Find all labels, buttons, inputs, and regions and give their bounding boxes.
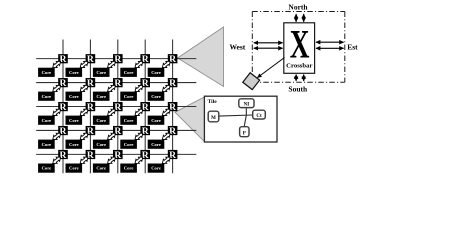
svg-text:Crossbar: Crossbar [286, 63, 312, 70]
router R (2,2) [86, 78, 96, 89]
core (5,3) [93, 164, 110, 173]
router internal diagram dashed boundary top [252, 11, 344, 13]
core (5,2) [66, 164, 83, 173]
core-router link arrow (4,2) [79, 131, 90, 141]
router R (5,2) [86, 150, 96, 161]
router R (1,3) [113, 54, 123, 65]
core-router link arrow (4,3) [106, 131, 117, 141]
router R (4,1) [58, 126, 68, 137]
local port diamond [243, 73, 260, 90]
crossbar box [284, 23, 315, 74]
core-router link arrow (3,1) [51, 107, 62, 117]
svg-text:M: M [211, 116, 216, 121]
mesh row 3 horizontal link wire [36, 106, 196, 108]
core-router link arrow (5,2) [79, 155, 90, 165]
core (2,4) [120, 92, 137, 101]
core (1,5) [148, 68, 165, 77]
core-router link arrow (3,3) [106, 107, 117, 117]
zoom callout triangle to crossbar diagram [178, 27, 224, 87]
east port arrow 1 [316, 41, 344, 43]
core (1,4) [120, 68, 137, 77]
core (4,1) [38, 140, 55, 149]
router R (5,5) [168, 150, 178, 161]
tile bus wire M to Ct [219, 115, 253, 116]
svg-text:South: South [288, 85, 308, 94]
mesh row 4 horizontal link wire [36, 129, 196, 131]
svg-text:Tile: Tile [208, 99, 218, 105]
core (3,4) [120, 116, 137, 125]
svg-text:P: P [243, 131, 246, 136]
mesh row 5 horizontal link wire [36, 153, 196, 155]
crossbar label [286, 63, 312, 70]
core (3,5) [148, 116, 165, 125]
svg-text:NI: NI [244, 102, 250, 107]
mesh row 1 horizontal link wire [36, 58, 196, 60]
router R (5,4) [140, 150, 150, 161]
mesh column 3 vertical link wire [117, 40, 119, 174]
core-router link arrow (2,3) [106, 83, 117, 93]
router R (4,2) [86, 126, 96, 137]
core (3,1) [38, 116, 55, 125]
crossbar X symbol [290, 23, 310, 67]
north port arrow 1 [295, 14, 297, 22]
tile component Ct [253, 110, 266, 119]
router R (3,4) [140, 102, 150, 113]
core-router link arrow (3,2) [79, 107, 90, 117]
router R (3,2) [86, 102, 96, 113]
core (5,5) [148, 164, 165, 173]
arrow from crossbar to local port diamond [257, 58, 284, 78]
core (2,5) [148, 92, 165, 101]
core (4,4) [120, 140, 137, 149]
wire NI to bus [245, 108, 247, 116]
core-router link arrow (1,5) [161, 59, 172, 69]
mesh column 5 vertical link wire [172, 40, 174, 174]
router R (2,1) [58, 78, 68, 89]
core-router link arrow (4,4) [133, 131, 144, 141]
north port arrow 2 [303, 14, 305, 22]
router R (4,5) [168, 126, 178, 137]
router R (1,2) [86, 54, 96, 65]
router R (3,5) [168, 102, 178, 113]
core-router link arrow (3,4) [133, 107, 144, 117]
svg-text:Est: Est [347, 42, 358, 51]
south port arrow 2 [303, 75, 305, 82]
router R (1,5) [168, 54, 178, 65]
dashed boundary left [251, 12, 253, 83]
dashed boundary right [344, 12, 346, 83]
core (1,1) [38, 68, 55, 77]
router R (2,5) [168, 78, 178, 89]
core (4,5) [148, 140, 165, 149]
south port arrow 1 [295, 75, 297, 82]
core-router link arrow (2,1) [51, 83, 62, 93]
tile component P [240, 127, 249, 137]
core (2,1) [38, 92, 55, 101]
core-router link arrow (4,5) [161, 131, 172, 141]
west port arrow 2 [254, 47, 283, 49]
tile component M [208, 111, 219, 122]
core-router link arrow (5,5) [161, 155, 172, 165]
router R (5,3) [113, 150, 123, 161]
mesh column 4 vertical link wire [144, 40, 146, 174]
router R (2,4) [140, 78, 150, 89]
mesh column 1 vertical link wire [62, 40, 64, 174]
core-router link arrow (1,4) [133, 59, 144, 69]
core (3,3) [93, 116, 110, 125]
tile detail box [204, 96, 277, 142]
core-router link arrow (1,1) [51, 59, 62, 69]
tile component NI [239, 99, 254, 108]
core-router link arrow (5,3) [106, 155, 117, 165]
tile label [208, 99, 218, 105]
core (1,3) [93, 68, 110, 77]
svg-text:Ct: Ct [256, 114, 262, 119]
core (3,2) [66, 116, 83, 125]
core-router link arrow (2,2) [79, 83, 90, 93]
wire bus to P [244, 115, 246, 126]
east port arrow 2 [316, 47, 344, 49]
router R (2,3) [113, 78, 123, 89]
router R (1,1) [58, 54, 68, 65]
router R (4,3) [113, 126, 123, 137]
core (1,2) [66, 68, 83, 77]
router R (5,1) [58, 150, 68, 161]
mesh column 2 vertical link wire [89, 40, 91, 174]
mesh row 2 horizontal link wire [36, 82, 196, 84]
core-router link arrow (5,4) [133, 155, 144, 165]
svg-text:North: North [288, 2, 308, 11]
router R (3,1) [58, 102, 68, 113]
core-router link arrow (2,5) [161, 83, 172, 93]
core-router link arrow (5,1) [51, 155, 62, 165]
core-router link arrow (3,5) [161, 107, 172, 117]
dashed boundary bottom [252, 81, 344, 83]
core-router link arrow (1,3) [106, 59, 117, 69]
router R (3,3) [113, 102, 123, 113]
core (2,3) [93, 92, 110, 101]
core-router link arrow (4,1) [51, 131, 62, 141]
svg-text:X: X [290, 23, 310, 67]
core (5,4) [120, 164, 137, 173]
router R (4,4) [140, 126, 150, 137]
zoom callout cone to tile detail [175, 97, 204, 142]
core (2,2) [66, 92, 83, 101]
core (4,2) [66, 140, 83, 149]
svg-text:West: West [229, 43, 245, 52]
core-router link arrow (1,2) [79, 59, 90, 69]
core (5,1) [38, 164, 55, 173]
core (4,3) [93, 140, 110, 149]
router R (1,4) [140, 54, 150, 65]
west port arrow 1 [254, 42, 283, 44]
core-router link arrow (2,4) [133, 83, 144, 93]
